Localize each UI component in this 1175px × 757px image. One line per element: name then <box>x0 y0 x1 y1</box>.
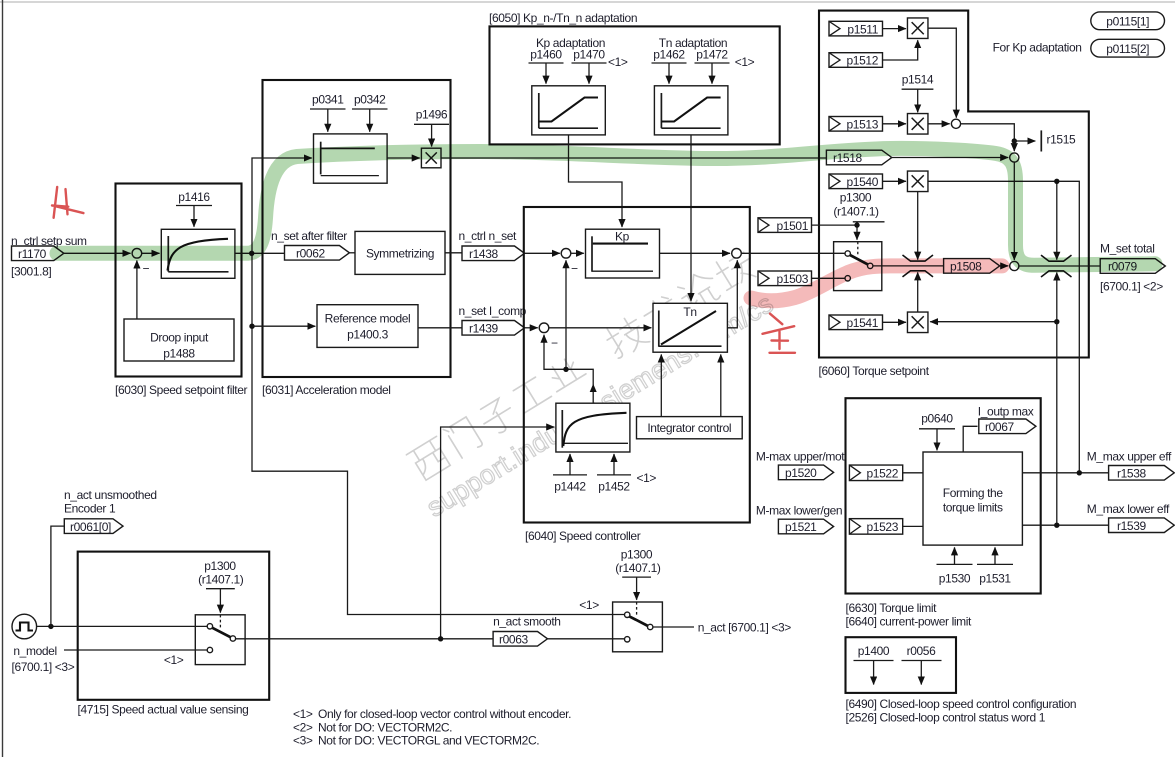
connector p1508 <box>944 259 1000 274</box>
svg-text:p1523: p1523 <box>867 520 899 534</box>
multiplier M3 <box>907 171 928 192</box>
wire p1416 arrow <box>193 206 195 227</box>
svg-text:p1400: p1400 <box>858 644 890 658</box>
wire M1 out to C3 <box>928 28 956 117</box>
wire M4 up to L1 <box>917 272 919 312</box>
svg-text:<1>: <1> <box>293 707 313 721</box>
wire n_act out <box>653 626 694 628</box>
n_act switch pole top <box>625 612 630 617</box>
summing junction C3 <box>951 119 960 128</box>
encoder symbol <box>12 614 37 639</box>
wire smoothing filter to S4 <box>544 335 593 403</box>
svg-text:−: − <box>571 262 578 276</box>
svg-text:Integrator control: Integrator control <box>647 421 731 435</box>
wire r0056 arrow <box>920 661 922 685</box>
torque switch dashed line <box>857 242 859 255</box>
underline r1407.1 n_act switch <box>622 576 651 578</box>
svg-text:r0063: r0063 <box>499 633 528 647</box>
box 4715 Speed actual value sensing <box>78 552 270 700</box>
wire n_set branch up to accel block <box>252 158 312 253</box>
red pen mark near torque setpoint <box>763 314 796 353</box>
svg-text:p1470: p1470 <box>573 48 605 62</box>
svg-text:[6030] Speed setpoint filter: [6030] Speed setpoint filter <box>115 383 248 397</box>
wire S2 to Kp <box>571 252 584 254</box>
wire integrator left arrow <box>660 355 662 417</box>
block Forming the torque limits <box>923 452 1022 545</box>
wire p1300 arrow encoder switch <box>219 589 221 613</box>
wire p0640 arrow <box>936 429 938 451</box>
svg-text:r1515: r1515 <box>1047 133 1076 147</box>
svg-text:p1300: p1300 <box>621 548 653 562</box>
svg-text:p1416: p1416 <box>178 190 210 204</box>
svg-text:(r1407.1): (r1407.1) <box>198 573 244 587</box>
wire p1531 arrow <box>994 547 996 564</box>
wire Tn adaptation to Tn block <box>690 135 692 301</box>
wire r1438 to S2 <box>525 252 560 254</box>
node p1501 junction <box>854 222 859 227</box>
svg-text:p0115[2]: p0115[2] <box>1106 42 1149 56</box>
wire p1522 to forming block <box>903 472 923 474</box>
rounded box p0115[1] <box>1091 12 1165 30</box>
summing junction C5 <box>1010 261 1019 270</box>
connector p1541 <box>829 315 883 330</box>
svg-text:p1400.3: p1400.3 <box>347 328 388 342</box>
svg-text:p1540: p1540 <box>847 175 879 189</box>
svg-text:−: − <box>143 262 150 276</box>
svg-text:Encoder 1: Encoder 1 <box>64 502 116 516</box>
wire reference model to r1439 <box>418 327 462 329</box>
Kp block <box>586 229 660 278</box>
node r1539 junction <box>1054 523 1059 528</box>
svg-text:(r1407.1): (r1407.1) <box>833 205 879 219</box>
svg-text:r0062: r0062 <box>296 247 325 261</box>
connector r1439 <box>462 321 525 336</box>
svg-text:n_ctrl n_set: n_ctrl n_set <box>459 229 518 243</box>
svg-text:M-max upper/mot: M-max upper/mot <box>756 450 845 464</box>
svg-text:r0056: r0056 <box>907 644 936 658</box>
svg-text:<1>: <1> <box>608 55 628 69</box>
underline r1407.1 <box>853 221 885 223</box>
wire S1 to filter <box>142 252 160 254</box>
svg-text:p1300: p1300 <box>204 559 236 573</box>
svg-text:p1503: p1503 <box>777 272 809 286</box>
wire droop to S1 <box>136 261 138 320</box>
smoothing block p1442 p1452 <box>556 403 630 452</box>
wire accel block to multiplier <box>387 157 420 159</box>
wire r0067 connector <box>963 426 977 452</box>
wire n_act into smoothing block <box>441 427 555 639</box>
box 6031 Acceleration model <box>263 80 451 377</box>
svg-text:p1300: p1300 <box>840 191 872 205</box>
svg-text:p1531: p1531 <box>979 572 1011 586</box>
connector p1512 <box>829 53 883 68</box>
svg-text:r1539: r1539 <box>1117 519 1146 533</box>
wire Kp to S3 <box>660 252 731 254</box>
multiplier M4 <box>907 312 928 333</box>
summing junction S1 <box>132 249 142 259</box>
svg-text:p1530: p1530 <box>939 572 971 586</box>
connector r0063 <box>493 632 547 647</box>
encoder switch pole out <box>230 636 235 641</box>
svg-text:n_act smooth: n_act smooth <box>493 615 560 629</box>
connector r1170 <box>12 246 64 261</box>
wire p1530 arrow <box>954 547 956 564</box>
svg-text:r1438: r1438 <box>469 247 498 261</box>
limiter L2 lower <box>1041 271 1072 277</box>
wire p1508 to C5 <box>1000 265 1009 267</box>
svg-text:[6630] Torque limit: [6630] Torque limit <box>846 601 938 615</box>
red pen mark near r1170 <box>52 187 83 218</box>
svg-text:<2>: <2> <box>293 720 313 734</box>
rounded box p0115[2] <box>1091 39 1165 57</box>
svg-text:Droop input: Droop input <box>150 331 209 345</box>
wire p1462 arrow <box>668 63 670 84</box>
svg-text:Symmetrizing: Symmetrizing <box>366 247 434 261</box>
wire p1300 arrow n_act switch <box>636 577 638 600</box>
svg-text:p1442: p1442 <box>554 480 586 494</box>
svg-text:p1472: p1472 <box>696 48 728 62</box>
svg-text:p0640: p0640 <box>921 412 953 426</box>
summing junction S2 <box>561 249 571 259</box>
svg-text:<1>: <1> <box>735 55 755 69</box>
page left border <box>2 0 4 757</box>
Tn adaptation block <box>654 86 728 135</box>
wire r1515 branch <box>1014 140 1035 142</box>
wire Symmetrizing to r1438 <box>445 252 462 254</box>
svg-text:I_outp max: I_outp max <box>978 405 1034 419</box>
wire p1496 arrow <box>431 124 433 146</box>
wire p1400 arrow <box>873 661 875 685</box>
wire integrator right arrow <box>720 355 722 417</box>
wire C4 down to C5 <box>1013 162 1015 260</box>
wire p1503 to switch <box>812 277 845 279</box>
svg-text:M_set total: M_set total <box>1100 242 1155 256</box>
wire lower limit down to r1539 <box>1056 322 1058 526</box>
page top edge line <box>0 1 1175 3</box>
n_act switch pole bottom <box>625 637 630 642</box>
green highlighter stroke <box>57 148 1155 265</box>
connector r1539 <box>1109 518 1175 533</box>
svg-text:M_max lower eff: M_max lower eff <box>1087 502 1170 516</box>
node M3 out junction <box>1054 179 1059 184</box>
wire encoder switch out <box>236 638 494 640</box>
svg-text:Forming the: Forming the <box>943 486 1004 500</box>
wire upper limit to L2 <box>1056 181 1058 259</box>
connector r0062 <box>285 246 350 261</box>
node r1538 junction <box>1077 470 1082 475</box>
wire p0342 arrow <box>369 109 371 132</box>
svg-text:Not for DO: VECTORGL and VECTO: Not for DO: VECTORGL and VECTORM2C. <box>318 734 539 748</box>
svg-text:p1511: p1511 <box>847 22 878 36</box>
wire p1501 to switch <box>812 225 858 240</box>
multiplier p1496 <box>421 148 441 168</box>
svg-text:Not for DO: VECTORM2C.: Not for DO: VECTORM2C. <box>318 720 452 734</box>
svg-text:M_max upper eff: M_max upper eff <box>1087 450 1172 464</box>
svg-text:[6040] Speed controller: [6040] Speed controller <box>525 529 641 543</box>
wire p1442 arrow <box>569 454 571 475</box>
connector p1521 <box>778 519 833 534</box>
svg-text:[6640] current-power limit: [6640] current-power limit <box>846 615 973 629</box>
svg-text:<1>: <1> <box>637 471 657 485</box>
wire r0061 branch <box>51 526 64 626</box>
connector p1513 <box>829 117 883 132</box>
wire Tn to S3 <box>727 260 737 328</box>
svg-text:r0061[0]: r0061[0] <box>70 520 111 534</box>
torque switch pole bottom <box>845 276 850 281</box>
connector r1538 <box>1109 466 1175 481</box>
wire p1460 arrow <box>545 63 547 84</box>
svg-text:Only for closed-loop vector co: Only for closed-loop vector control with… <box>318 707 571 721</box>
encoder switch arm <box>212 628 231 638</box>
svg-text:p1488: p1488 <box>163 347 195 361</box>
svg-text:[2526] Closed-loop control sta: [2526] Closed-loop control status word 1 <box>846 711 1046 725</box>
svg-text:n_set after filter: n_set after filter <box>271 229 347 243</box>
wire forming to r1539 <box>1022 524 1108 526</box>
wire p1541 to M4 <box>883 321 906 323</box>
svg-text:(r1407.1): (r1407.1) <box>615 561 661 575</box>
svg-text:[6490] Closed-loop speed contr: [6490] Closed-loop speed control configu… <box>846 697 1077 711</box>
wire r0062 to Symmetrizing <box>349 252 355 254</box>
encoder switch pole top <box>207 624 212 629</box>
connector p1540 <box>829 174 883 189</box>
wire C5 to r0079 <box>1019 265 1100 267</box>
multiplier M1 <box>907 18 928 39</box>
limiter L1 upper <box>903 255 934 261</box>
wire lower limit to L2 <box>1056 273 1058 322</box>
node n_act junction <box>438 636 443 641</box>
wire p1513 to M2 <box>883 123 906 125</box>
torque switch box <box>834 242 882 291</box>
pink highlighter stroke <box>751 266 1002 301</box>
wire r1518 to C4 <box>892 157 1008 159</box>
wire M3 out to r1538 drop <box>928 181 1079 473</box>
block Reference model p1400.3 <box>317 305 418 348</box>
box 6030 Speed setpoint filter <box>116 184 242 377</box>
svg-text:[3001.8]: [3001.8] <box>11 265 51 279</box>
svg-text:M-max lower/gen: M-max lower/gen <box>756 504 842 518</box>
svg-text:[4715] Speed actual value sens: [4715] Speed actual value sensing <box>78 703 249 717</box>
wire n_model to switch <box>64 649 207 651</box>
svg-text:n_model: n_model <box>13 644 56 658</box>
wire M2 to C3 <box>928 123 950 125</box>
wire encoder to switch <box>37 625 208 627</box>
svg-text:torque limits: torque limits <box>943 501 1003 515</box>
svg-text:p1541: p1541 <box>847 316 879 330</box>
wire S3 to torque switch <box>741 252 845 254</box>
svg-text:Tn: Tn <box>683 305 696 319</box>
node encoder junction <box>48 624 53 629</box>
wire p1523 to forming block <box>903 525 923 527</box>
svg-text:p1496: p1496 <box>416 108 448 122</box>
n_act switch arm <box>629 616 648 626</box>
watermark forum text <box>397 245 783 523</box>
node feedback junction <box>563 367 568 372</box>
wire r1439 to S4 <box>525 327 538 329</box>
Kp adaptation block <box>532 86 606 135</box>
box 6060 Torque setpoint <box>819 11 1089 358</box>
svg-text:[6700.1] <3>: [6700.1] <3> <box>12 660 75 674</box>
svg-text:For Kp adaptation: For Kp adaptation <box>993 41 1082 55</box>
wire filter to r0062 <box>235 252 285 254</box>
wire junction to reference model <box>252 325 315 327</box>
torque switch pole top <box>845 251 850 256</box>
svg-text:p1520: p1520 <box>785 466 817 480</box>
box 6050 adaptation <box>490 26 780 144</box>
torque switch pole out <box>868 263 873 268</box>
summing junction S3 <box>732 249 742 259</box>
torque switch arm <box>850 255 868 265</box>
wire p1472 arrow <box>711 63 713 84</box>
n_act switch box <box>613 602 663 652</box>
summing junction S4 <box>539 323 549 333</box>
svg-text:r0067: r0067 <box>985 420 1014 434</box>
connector p1523 <box>849 519 902 535</box>
underline r1407.1 encoder switch <box>206 588 235 590</box>
svg-text:r1538: r1538 <box>1117 467 1146 481</box>
wire C3 to C4 <box>961 124 1015 151</box>
svg-text:n_set I_comp: n_set I_comp <box>459 304 527 318</box>
svg-text:p1513: p1513 <box>847 118 879 132</box>
speed filter block p1416 <box>161 229 235 278</box>
node r0062 junction <box>249 251 254 256</box>
svg-text:p1514: p1514 <box>902 73 934 87</box>
node lower limit junction <box>1054 319 1059 324</box>
wire r1170 to summing S1 <box>64 252 131 254</box>
svg-text:<3>: <3> <box>293 734 313 748</box>
svg-text:[6031] Acceleration model: [6031] Acceleration model <box>262 383 391 397</box>
summing junction C4 <box>1010 153 1019 162</box>
n_act switch pole out <box>648 624 653 629</box>
svg-text:p1501: p1501 <box>777 219 809 233</box>
wire switch to p1508 <box>873 265 944 267</box>
encoder switch dashed line <box>219 615 221 628</box>
wire p1452 arrow <box>613 454 615 475</box>
wire lower limit feed to M4 <box>930 321 1057 323</box>
connector r0061[0] <box>64 519 123 534</box>
svg-text:r1439: r1439 <box>469 322 498 336</box>
node reference model junction <box>249 324 254 329</box>
svg-text:n_act [6700.1] <3>: n_act [6700.1] <3> <box>698 621 792 635</box>
Tn block <box>653 303 727 352</box>
connector p1511 <box>829 21 883 36</box>
wire p0341 arrow <box>327 109 329 132</box>
wire p1514 arrow <box>917 89 919 112</box>
n_act switch dashed line <box>636 602 638 615</box>
svg-text:<1>: <1> <box>579 598 599 612</box>
wire Kp adaptation to Kp block <box>569 135 623 227</box>
wire r0063 to n_act switch <box>548 638 625 640</box>
wire p1540 to M3 <box>883 180 906 182</box>
multiplier M2 <box>907 114 928 135</box>
block Symmetrizing <box>355 231 445 274</box>
wire forming to r1538 <box>1022 472 1108 474</box>
box 6490 configuration <box>846 637 957 693</box>
svg-text:[6700.1] <2>: [6700.1] <2> <box>1100 280 1163 294</box>
svg-text:p1512: p1512 <box>847 54 879 68</box>
svg-text:p1460: p1460 <box>530 48 562 62</box>
svg-text:[6060] Torque setpoint: [6060] Torque setpoint <box>819 364 930 378</box>
block Integrator control <box>637 417 743 439</box>
wire p1511 to M1 <box>883 28 906 30</box>
svg-text:n_act unsmoothed: n_act unsmoothed <box>64 488 157 502</box>
encoder switch box <box>195 615 245 665</box>
arrowhead on smoothing riser <box>590 384 597 392</box>
node r1515 junction <box>1012 138 1017 143</box>
wire p1470 arrow <box>588 63 590 84</box>
svg-text:p1452: p1452 <box>598 480 630 494</box>
svg-text:p0341: p0341 <box>312 93 344 107</box>
svg-text:[6050] Kp_n-/Tn_n adaptation: [6050] Kp_n-/Tn_n adaptation <box>489 11 637 25</box>
svg-text:p1521: p1521 <box>785 520 817 534</box>
connector r1518 <box>826 150 891 165</box>
connector r0079 <box>1100 259 1165 274</box>
svg-text:p1462: p1462 <box>653 48 685 62</box>
connector r0067 <box>979 419 1036 434</box>
wire M3 down to L1 <box>917 192 919 260</box>
connector p1501 <box>758 218 812 233</box>
wire n_act feedback to S2 <box>565 260 567 369</box>
svg-text:p0342: p0342 <box>354 93 386 107</box>
accel block p0341 p0342 <box>314 134 388 183</box>
connector r1438 <box>462 246 525 261</box>
limiter L2 upper <box>1041 255 1072 261</box>
svg-text:Reference model: Reference model <box>325 312 411 326</box>
wire S4 to Tn <box>549 327 652 329</box>
svg-text:p0115[1]: p0115[1] <box>1106 15 1149 29</box>
wire n_set branch down to lower switch <box>252 253 624 614</box>
block Droop input p1488 <box>124 319 234 361</box>
limiter L1 lower <box>903 271 934 277</box>
svg-text:p1522: p1522 <box>867 467 899 481</box>
svg-text:<1>: <1> <box>164 653 184 667</box>
wire long n_set_kp to r1518 <box>441 157 826 159</box>
svg-text:Kp: Kp <box>615 230 630 244</box>
connector p1503 <box>758 271 812 286</box>
encoder switch pole bottom <box>207 647 212 652</box>
connector p1522 <box>849 465 902 481</box>
connector p1520 <box>778 465 833 480</box>
svg-text:−: − <box>551 336 558 350</box>
box 6630 Torque limit <box>846 398 1041 593</box>
svg-text:r1170: r1170 <box>18 247 47 261</box>
wire p1512 to M1 <box>883 40 918 60</box>
box 6040 Speed controller <box>524 207 750 523</box>
